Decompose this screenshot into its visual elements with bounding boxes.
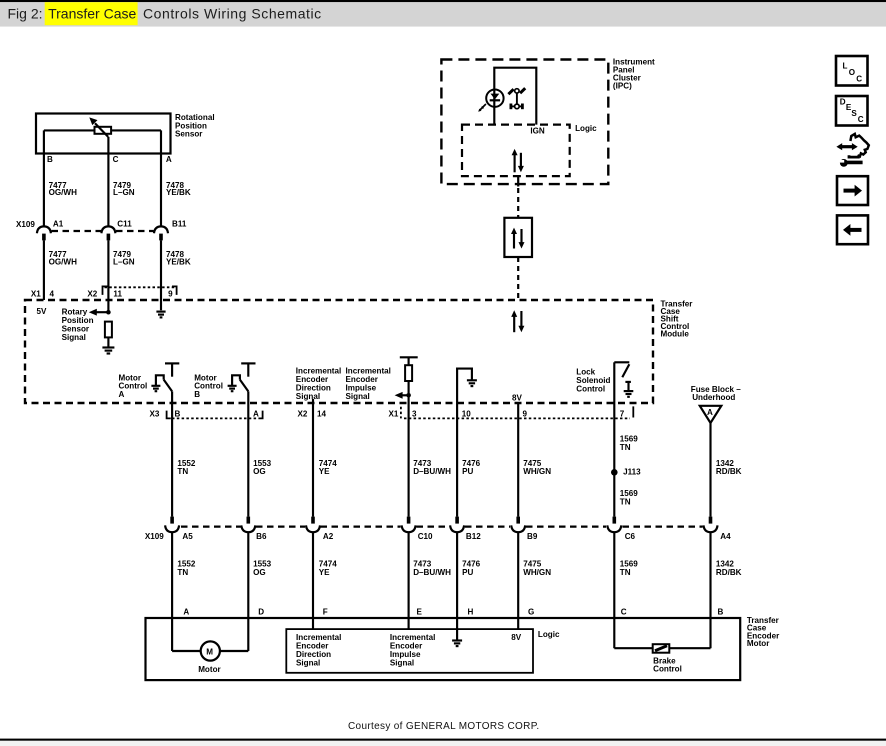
- svg-text:A5: A5: [182, 532, 193, 541]
- label Incremental Encoder Impulse Signal: [346, 367, 391, 401]
- svg-text:D: D: [840, 97, 846, 106]
- svg-text:YE/BK: YE/BK: [166, 258, 191, 267]
- ground on pin 9 wire: [156, 312, 165, 318]
- terminal arch B11: [154, 226, 168, 233]
- wire label 7473 D-BU/WH: [413, 459, 451, 476]
- resistor on sensor signal: [105, 322, 112, 338]
- wire label 7473 D-BU/WH lower: [413, 560, 451, 577]
- wire label 1552 TN: [177, 459, 196, 476]
- svg-text:4: 4: [50, 290, 55, 299]
- ground below resistor: [102, 348, 114, 354]
- svg-text:11: 11: [113, 290, 122, 299]
- ground motor control A: [151, 386, 160, 391]
- svg-text:H: H: [468, 608, 474, 617]
- svg-text:9: 9: [168, 290, 173, 299]
- wire label 7474 YE lower: [319, 560, 338, 577]
- svg-text:D–BU/WH: D–BU/WH: [413, 568, 451, 577]
- terminal cup B12: [450, 525, 464, 532]
- wire label 1553 OG lower: [253, 560, 272, 577]
- svg-text:Control: Control: [576, 385, 605, 394]
- svg-text:8V: 8V: [512, 394, 523, 403]
- terminal pin B6: [247, 517, 251, 524]
- indicator LED: [486, 90, 503, 107]
- motor control B switch: [232, 363, 255, 391]
- wire label 7478 YE/BK upper: [166, 181, 191, 197]
- svg-text:9: 9: [523, 409, 528, 418]
- svg-text:8V: 8V: [511, 633, 522, 642]
- shortcut tools icon: [836, 134, 868, 167]
- wire C11 to module: [107, 240, 109, 312]
- svg-text:YE/BK: YE/BK: [166, 188, 191, 197]
- wire label 7475 WH/GN: [523, 459, 551, 476]
- svg-text:Signal: Signal: [62, 333, 86, 342]
- terminal cup C6: [607, 525, 621, 532]
- title highlight Transfer Case: [45, 2, 138, 25]
- svg-text:(IPC): (IPC): [613, 82, 632, 91]
- terminal pin C6: [613, 517, 617, 524]
- impulse signal arrow: [395, 392, 409, 399]
- svg-text:C6: C6: [625, 532, 636, 541]
- svg-text:F: F: [323, 608, 328, 617]
- label Fuse Block - Underhood: [691, 385, 741, 402]
- motor feed wire right: [220, 650, 248, 652]
- DESC button: [836, 96, 868, 126]
- connector X2 left bracket: [103, 286, 108, 295]
- svg-text:Controls Wiring Schematic: Controls Wiring Schematic: [143, 5, 322, 21]
- next arrow button: [837, 176, 868, 205]
- svg-text:L: L: [843, 62, 848, 71]
- label Instrument Panel Cluster (IPC): [613, 57, 655, 90]
- serial box data arrows: [511, 228, 525, 249]
- brake control element: [653, 644, 670, 653]
- svg-text:TN: TN: [177, 568, 188, 577]
- module serial data arrows: [511, 310, 524, 332]
- svg-text:X3: X3: [150, 409, 160, 418]
- connector X3 extent dotted line: [172, 417, 257, 419]
- svg-text:X109: X109: [145, 532, 164, 541]
- label Rotary Position Sensor Signal: [62, 308, 94, 342]
- terminal pin B11: [159, 234, 163, 241]
- terminal cup A5: [165, 525, 179, 532]
- svg-text:B11: B11: [172, 220, 187, 229]
- label Transfer Case Shift Control Module: [661, 299, 694, 338]
- node junction on sensor signal wire: [106, 310, 111, 315]
- terminal pin B12: [455, 517, 459, 524]
- IPC logic data arrows: [512, 149, 524, 172]
- encoder logic box: [286, 629, 533, 673]
- svg-text:S: S: [851, 109, 857, 118]
- connector X2 extent dotted line: [105, 286, 176, 288]
- terminal cup B6: [241, 525, 255, 532]
- wire sensor A leg: [160, 130, 162, 226]
- terminal cup C10: [402, 525, 416, 532]
- wire label 1342 RD/BK: [716, 459, 742, 476]
- svg-text:Signal: Signal: [346, 392, 370, 401]
- svg-text:A: A: [119, 390, 125, 399]
- svg-text:YE: YE: [319, 568, 330, 577]
- impulse resistor: [405, 357, 412, 403]
- wire label 7476 PU: [462, 459, 481, 476]
- svg-text:Sensor: Sensor: [175, 130, 203, 139]
- fuse block triangle terminal A: [700, 406, 722, 423]
- terminal cup A2: [306, 525, 320, 532]
- terminal cup B9: [511, 525, 525, 532]
- ground motor control B: [228, 386, 237, 391]
- wire label 7476 PU lower: [462, 560, 481, 577]
- label Rotational Position Sensor: [175, 113, 215, 139]
- svg-text:B: B: [175, 409, 181, 418]
- label Incremental Encoder Direction Signal: [296, 367, 341, 401]
- terminal cup A4: [704, 525, 718, 532]
- serial data wire IPC exit: [517, 176, 519, 186]
- svg-text:A1: A1: [53, 220, 64, 229]
- svg-text:Fig 2:: Fig 2:: [8, 5, 43, 21]
- IPC logic dashed box: [462, 125, 570, 177]
- rotary position sensor signal arrow: [89, 309, 109, 316]
- wire B11 to module: [43, 240, 45, 300]
- wire sensor B leg: [43, 130, 45, 226]
- svg-text:B6: B6: [256, 532, 267, 541]
- svg-text:PU: PU: [462, 568, 473, 577]
- svg-text:10: 10: [462, 409, 472, 418]
- wire A2 to encoder pin F: [312, 532, 314, 629]
- LOC button: [836, 56, 868, 86]
- svg-text:L–GN: L–GN: [113, 258, 135, 267]
- serial data link box: [504, 218, 532, 257]
- svg-text:YE: YE: [319, 467, 330, 476]
- connector X3 right bracket: [258, 411, 262, 419]
- terminal pin A4: [709, 517, 713, 524]
- svg-text:Control: Control: [653, 665, 682, 674]
- wire label 7474 YE: [319, 459, 338, 476]
- connector X2 right bracket: [172, 286, 177, 295]
- impulse pull-up top bar: [400, 356, 418, 358]
- wire label 1342 RD/BK lower: [716, 560, 742, 577]
- wire label 1552 TN lower: [177, 560, 196, 577]
- svg-text:IGN: IGN: [530, 127, 545, 136]
- 4x4 drivetrain icon: [508, 88, 525, 109]
- wire motor control B pin A to X109 B6: [247, 391, 249, 516]
- svg-text:J113: J113: [623, 468, 641, 477]
- wire label 7475 WH/GN lower: [523, 560, 551, 577]
- wire impulse signal pin 3 to X109 C10: [408, 403, 410, 517]
- label Brake Control: [653, 656, 682, 673]
- ground encoder pin H: [452, 641, 462, 647]
- svg-text:Motor: Motor: [198, 665, 221, 674]
- terminal pin A2: [311, 517, 315, 524]
- wire pin 9 8V to X109 B9: [517, 403, 519, 517]
- label Lock Solenoid Control: [576, 368, 610, 394]
- svg-text:C: C: [858, 115, 864, 124]
- wire label 7478 YE/BK lower: [166, 250, 191, 267]
- potentiometer wiper arrow: [89, 117, 108, 136]
- LED emission arrows: [478, 104, 486, 112]
- svg-text:A: A: [183, 608, 189, 617]
- svg-text:5V: 5V: [37, 307, 48, 316]
- label Motor Control A: [119, 373, 148, 399]
- svg-text:D: D: [258, 608, 264, 617]
- brake control wire right: [669, 647, 710, 649]
- svg-text:3: 3: [412, 409, 417, 418]
- svg-text:OG/WH: OG/WH: [49, 188, 77, 197]
- svg-text:L–GN: L–GN: [113, 188, 135, 197]
- svg-text:X1: X1: [31, 290, 41, 299]
- terminal pin B9: [516, 517, 520, 524]
- splice J113: [611, 469, 618, 476]
- terminal arch A1: [37, 226, 51, 233]
- wire label 1553 OG: [253, 459, 272, 476]
- svg-text:C11: C11: [117, 220, 132, 229]
- wire A1 to module: [160, 240, 162, 310]
- impulse junction node: [406, 393, 411, 398]
- svg-text:B: B: [718, 608, 724, 617]
- brake control wire left: [614, 647, 652, 649]
- svg-text:Courtesy of GENERAL MOTORS COR: Courtesy of GENERAL MOTORS CORP.: [348, 721, 540, 732]
- svg-text:Signal: Signal: [296, 658, 320, 667]
- ground pin 10: [467, 380, 477, 386]
- connector X1 left bracket: [400, 407, 402, 419]
- terminal pin C11: [107, 234, 111, 241]
- connector X1 extent dotted line: [404, 417, 630, 419]
- svg-text:O: O: [849, 68, 855, 77]
- wire B12 to encoder pin H: [456, 532, 458, 640]
- svg-text:X2: X2: [298, 409, 308, 418]
- connector dashes lower row: [181, 525, 703, 527]
- svg-text:B9: B9: [527, 532, 538, 541]
- svg-text:Transfer Case: Transfer Case: [48, 5, 136, 21]
- svg-text:OG: OG: [253, 467, 266, 476]
- IPC internal supply wire: [494, 68, 536, 125]
- svg-text:X1: X1: [389, 409, 399, 418]
- wire fuse to X109 A4: [709, 423, 711, 517]
- wire resistor to ground: [107, 337, 109, 347]
- svg-text:C10: C10: [418, 532, 433, 541]
- potentiometer resistor body: [95, 127, 112, 134]
- wire B9 to encoder pin G: [517, 532, 519, 629]
- connector dashes: [52, 230, 154, 232]
- svg-text:A2: A2: [323, 532, 334, 541]
- svg-text:RD/BK: RD/BK: [716, 568, 742, 577]
- wire motor control A pin B to X109 A5: [171, 391, 173, 516]
- svg-text:A: A: [166, 155, 172, 164]
- wire B6 to motor pin D: [247, 532, 249, 651]
- wire direction signal pin 14 to X109 A2: [312, 399, 314, 517]
- title bar background: [0, 0, 886, 27]
- lock solenoid switch: [614, 362, 629, 403]
- terminal arch C11: [101, 226, 115, 233]
- rotational position sensor box: [36, 114, 171, 154]
- svg-text:WH/GN: WH/GN: [523, 467, 551, 476]
- svg-text:7: 7: [620, 409, 625, 418]
- svg-text:M: M: [206, 648, 213, 657]
- svg-text:Module: Module: [661, 329, 690, 338]
- svg-text:B: B: [194, 390, 200, 399]
- svg-text:X2: X2: [87, 290, 97, 299]
- svg-text:OG/WH: OG/WH: [49, 258, 77, 267]
- pin 10 ground loop wire: [457, 369, 472, 403]
- module dashed box: [25, 300, 653, 403]
- svg-text:OG: OG: [253, 568, 266, 577]
- label Motor Control B: [194, 373, 223, 399]
- serial data dashed wire upper: [517, 188, 519, 218]
- previous arrow button: [837, 215, 868, 244]
- svg-text:14: 14: [317, 409, 327, 418]
- svg-text:A: A: [253, 409, 259, 418]
- lock solenoid ground contact: [624, 382, 634, 397]
- wire A4 to encoder pin B: [709, 532, 711, 648]
- svg-text:Motor: Motor: [747, 639, 770, 648]
- svg-text:TN: TN: [620, 498, 631, 507]
- wire A5 to motor pin A: [171, 532, 173, 651]
- svg-text:PU: PU: [462, 467, 473, 476]
- svg-text:B12: B12: [466, 532, 481, 541]
- connector X1 right bracket: [632, 406, 634, 417]
- wire label 7479 L-GN upper: [113, 181, 135, 197]
- svg-text:Logic: Logic: [538, 630, 560, 639]
- svg-text:C: C: [621, 608, 627, 617]
- svg-text:G: G: [528, 608, 534, 617]
- svg-text:C: C: [113, 155, 119, 164]
- connector X3 left bracket: [167, 411, 171, 419]
- wire label 1569 TN lower: [620, 489, 639, 506]
- footer rule: [0, 739, 886, 746]
- label Incremental Encoder Impulse Signal encoder: [390, 633, 435, 667]
- svg-text:B: B: [47, 155, 53, 164]
- svg-text:A4: A4: [720, 532, 731, 541]
- wire label 7477 OG/WH upper: [49, 181, 77, 197]
- svg-text:WH/GN: WH/GN: [523, 568, 551, 577]
- svg-text:Signal: Signal: [390, 658, 414, 667]
- motor control A switch: [156, 363, 179, 391]
- motor feed wire left: [172, 650, 201, 652]
- svg-text:E: E: [417, 608, 423, 617]
- terminal pin C10: [407, 517, 411, 524]
- terminal pin A1: [42, 234, 46, 241]
- wire label 7477 OG/WH lower: [49, 250, 77, 267]
- svg-text:Logic: Logic: [575, 124, 597, 133]
- svg-text:A: A: [707, 408, 713, 417]
- terminal pin A5: [170, 517, 174, 524]
- svg-text:TN: TN: [620, 568, 631, 577]
- wire sensor C leg: [107, 137, 109, 227]
- svg-text:D–BU/WH: D–BU/WH: [413, 467, 451, 476]
- wire label 7479 L-GN lower: [113, 250, 135, 267]
- svg-text:TN: TN: [177, 467, 188, 476]
- svg-text:RD/BK: RD/BK: [716, 467, 742, 476]
- wire label 1569 TN bottom: [620, 560, 639, 577]
- potentiometer track wire: [44, 129, 161, 131]
- label Incremental Encoder Direction Signal encoder: [296, 633, 341, 667]
- label Transfer Case Encoder Motor: [747, 616, 780, 648]
- wire pin 7 to X109 C6: [613, 403, 615, 517]
- svg-text:Underhood: Underhood: [692, 393, 735, 402]
- svg-text:C: C: [856, 75, 862, 84]
- encoder motor box: [146, 618, 741, 680]
- svg-text:TN: TN: [620, 443, 631, 452]
- wire pin 10 to X109 B12: [456, 403, 458, 517]
- wire label 1569 TN upper: [620, 435, 639, 452]
- motor M circle: [201, 641, 220, 660]
- serial data dashed wire lower: [517, 257, 519, 300]
- svg-text:Signal: Signal: [296, 392, 320, 401]
- wire C10 to encoder pin E: [408, 532, 410, 629]
- svg-text:X109: X109: [16, 220, 35, 229]
- wire C6 to encoder pin C: [613, 532, 615, 648]
- IPC dashed box: [441, 60, 608, 185]
